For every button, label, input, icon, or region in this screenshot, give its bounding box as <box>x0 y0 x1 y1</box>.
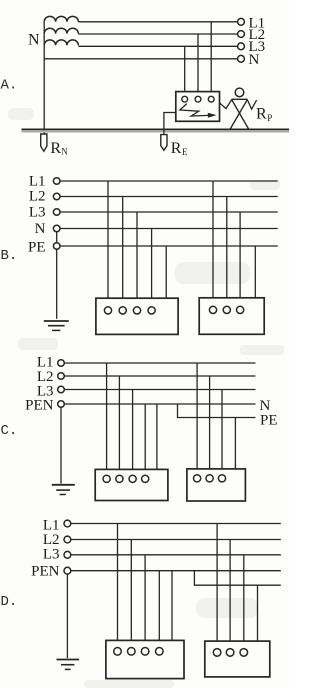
wire bus N (B) <box>60 228 278 230</box>
wire tap L1 to load2 (D) <box>216 524 218 649</box>
terminal L2 (C) <box>58 373 65 380</box>
terminal L2 (B) <box>53 193 60 200</box>
terminal L1 (C) <box>58 360 65 367</box>
wire bus L2 (B) <box>60 196 278 198</box>
wire bus L3 (C) <box>64 389 255 391</box>
pin 1 load2 (C) <box>194 475 201 482</box>
wire bus L1 (D) <box>71 523 281 525</box>
pin 3 load2 (C) <box>218 475 225 482</box>
pin 3 load2 (B) <box>237 306 244 313</box>
person shoulders <box>232 98 248 100</box>
terminal PE (B) <box>53 243 60 250</box>
pin 2 load1 (D) <box>128 648 136 656</box>
wire tap L1 to load2 (B) <box>212 181 214 306</box>
wire PEN branch step (D) <box>194 571 280 586</box>
svg-text:L2: L2 <box>29 189 46 205</box>
wire tap L1 to load1 (B) <box>107 181 109 307</box>
pin 2 load2 (B) <box>223 306 230 313</box>
equipment enclosure E1 (A) <box>176 92 220 122</box>
wire bus L2 (D) <box>71 539 281 541</box>
winding W2 <box>44 28 78 33</box>
terminal PEN (D) <box>64 567 71 574</box>
wire tap PE to load2 frame (B) <box>254 246 256 298</box>
terminal L3 (B) <box>53 209 60 216</box>
winding W1 <box>44 16 78 21</box>
wire tap L2 to load (A) <box>197 34 199 96</box>
pin 3 load2 (D) <box>240 649 248 657</box>
wire neutral-point vertical to earth electrode RN <box>43 22 45 134</box>
equipment enclosure load1 (B) <box>96 298 178 334</box>
terminal L2 (A) <box>238 31 245 38</box>
terminal PEN (C) <box>58 401 65 408</box>
svg-text:R: R <box>50 140 61 157</box>
wire tap L2 to load1 (B) <box>122 197 124 307</box>
person torso-leg cross 1 <box>232 99 249 129</box>
wire tap L3 to load2 (C) <box>221 390 223 475</box>
pin 4 load1 (C) <box>142 475 149 482</box>
wire bus L2 (C) <box>64 375 255 377</box>
pin 3 load1 (C) <box>129 475 136 482</box>
svg-text:D.: D. <box>1 594 18 610</box>
wire PEN-PE split branch (C) <box>178 404 256 418</box>
equipment enclosure load1 (D) <box>106 640 184 678</box>
wire contact from E1 to person hand <box>220 100 232 109</box>
wire tap L3 to load1 (B) <box>136 212 138 307</box>
wire tap L2 to load2 (C) <box>209 376 211 475</box>
wire tap L2 to load1 (C) <box>118 376 120 475</box>
ground symbol (C) <box>52 484 75 486</box>
wire tap L1 to load2 (C) <box>196 363 198 475</box>
wire tap L2 to load2 (D) <box>229 540 231 649</box>
wire tap PE to load2 frame (C) <box>234 418 236 469</box>
terminal L1 (B) <box>53 178 60 185</box>
svg-text:L1: L1 <box>29 174 46 190</box>
wire N-PE link down to earth (B) <box>56 229 58 319</box>
wire bus PE (B) <box>60 245 278 247</box>
wire tap L3 to load2 (B) <box>239 212 241 306</box>
pin 2 load1 (B) <box>119 307 126 314</box>
winding W3 <box>44 40 78 45</box>
pin 4 load1 (D) <box>156 648 164 656</box>
terminal L1 (A) <box>238 18 245 25</box>
wire tap L3 to load1 (D) <box>144 555 146 648</box>
wire bus PEN to N (C) <box>64 403 255 405</box>
ground symbol (B) <box>44 320 69 322</box>
equipment enclosure load2 (B) <box>199 298 264 335</box>
person torso-leg cross 2 <box>230 99 247 129</box>
wire tap L2 to load1 (D) <box>130 540 132 648</box>
svg-text:P: P <box>267 113 272 123</box>
terminal L3 (C) <box>58 386 65 393</box>
svg-text:C.: C. <box>1 423 18 439</box>
ground symbol (D) <box>57 659 80 661</box>
pin 1 load2 (D) <box>213 649 221 657</box>
svg-text:N: N <box>61 147 68 157</box>
terminal N (B) <box>53 225 60 232</box>
equipment enclosure load1 (C) <box>95 469 168 500</box>
pin terminal 1 of E1 <box>182 96 188 102</box>
pin 3 load1 (D) <box>141 648 149 656</box>
earth surface line (A) <box>22 128 290 130</box>
equipment enclosure load2 (C) <box>187 469 246 501</box>
wire tap L1 to load1 (D) <box>117 524 119 648</box>
svg-text:PE: PE <box>260 413 278 429</box>
wire tap PEN to load1 frame (D) <box>171 571 173 641</box>
fault current arrow inside E1 <box>180 104 209 116</box>
wire tap PEN branch to load2 frame (D) <box>257 585 259 641</box>
earth electrode RE <box>161 135 167 151</box>
wire bus L1 (C) <box>64 362 255 364</box>
svg-text:N: N <box>35 221 46 237</box>
wire bus PEN (D) <box>71 570 281 572</box>
wire bus L3 (D) <box>71 554 281 556</box>
wire tap N to load1 (C) <box>144 404 146 475</box>
wire bus L3 (B) <box>60 211 278 213</box>
wire bus L1 (B) <box>60 180 278 182</box>
wire bus N (A) <box>44 58 237 60</box>
wire PEN down to earth (D) <box>66 571 68 659</box>
wire bus L3 (A) <box>78 45 237 47</box>
svg-text:A.: A. <box>1 78 18 94</box>
terminal N (A) <box>238 55 245 62</box>
wire from E1 to earth electrode RE <box>164 113 176 135</box>
svg-text:R: R <box>256 106 267 123</box>
svg-text:R: R <box>171 140 182 157</box>
pin terminal 3 of E1 <box>208 96 214 102</box>
pin 3 load1 (B) <box>133 307 140 314</box>
pin 2 load2 (C) <box>206 475 213 482</box>
wire tap PEN to load1 frame (C) <box>156 404 158 469</box>
svg-text:PE: PE <box>28 240 46 256</box>
pin 2 load1 (C) <box>116 475 123 482</box>
wire tap L3 to load1 (C) <box>132 390 134 476</box>
wire bus L2 (A) <box>78 33 237 35</box>
pin 1 load1 (C) <box>103 475 110 482</box>
pin 1 load1 (B) <box>104 307 111 314</box>
svg-text:L3: L3 <box>29 205 46 221</box>
person head <box>235 88 244 97</box>
wire bus L1 (A) <box>78 21 237 23</box>
wire tap PEN to load1 (D) <box>158 571 160 648</box>
svg-text:PEN: PEN <box>25 398 54 414</box>
person right arm <box>247 100 256 110</box>
terminal L2 (D) <box>64 536 71 543</box>
pin 1 load2 (B) <box>209 306 216 313</box>
terminal L3 (A) <box>238 43 245 50</box>
pin 2 load2 (D) <box>226 649 234 657</box>
wire tap L2 to load2 (B) <box>226 197 228 307</box>
svg-text:L3: L3 <box>43 547 60 563</box>
svg-text:N: N <box>249 52 260 68</box>
pin 4 load1 (B) <box>148 307 155 314</box>
wire tap L1 to load (A) <box>210 22 212 97</box>
pin terminal 2 of E1 <box>195 96 201 102</box>
wire PEN down to earth (C) <box>60 404 62 484</box>
wire tap L1 to load1 (C) <box>106 363 108 475</box>
terminal L1 (D) <box>64 520 71 527</box>
wire tap L3 to load (A) <box>184 46 186 96</box>
wire tap PE to load1 frame (B) <box>165 246 167 298</box>
wire tap L3 to load2 (D) <box>243 555 245 649</box>
terminal L3 (D) <box>64 551 71 558</box>
svg-text:B.: B. <box>1 248 18 264</box>
earth electrode RN <box>41 134 47 151</box>
svg-text:PEN: PEN <box>31 564 60 580</box>
svg-text:E: E <box>182 147 188 157</box>
svg-text:N: N <box>28 32 40 49</box>
equipment enclosure load2 (D) <box>205 641 270 677</box>
pin 1 load1 (D) <box>114 648 122 656</box>
wire tap N to load1 (B) <box>151 229 153 307</box>
